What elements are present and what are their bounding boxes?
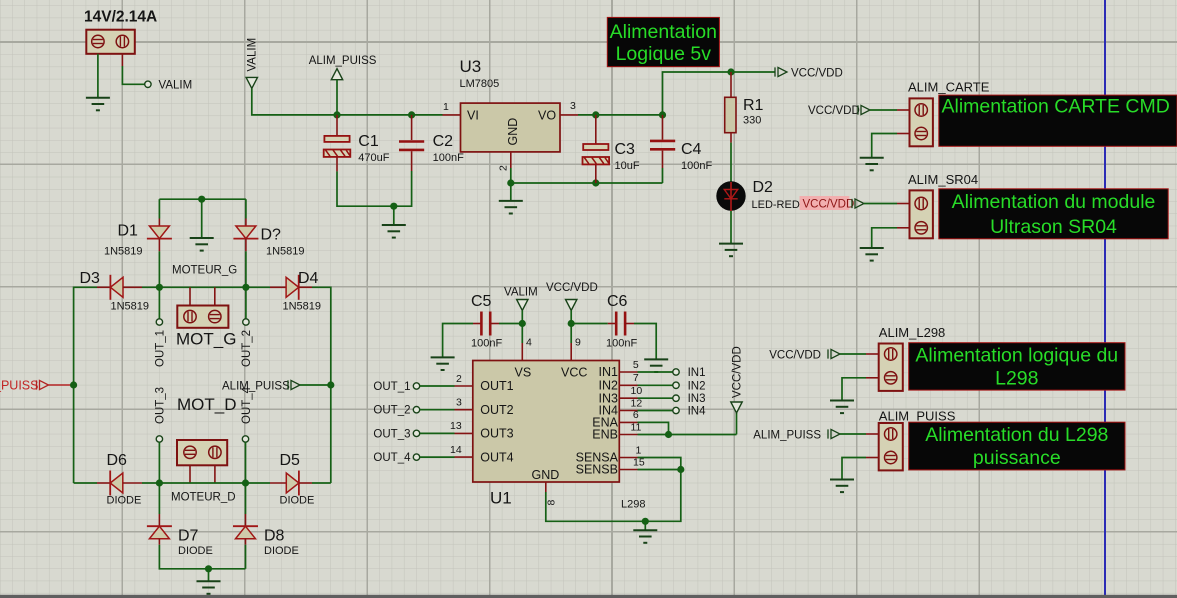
svg-text:11: 11 xyxy=(631,421,642,433)
power arrow VALIM (rotated, top middle) xyxy=(246,38,259,89)
port arrow PUISS (left edge) xyxy=(0,379,49,393)
black info box Alimentation Logique 5v xyxy=(607,17,719,66)
svg-text:DIODE: DIODE xyxy=(280,495,315,507)
svg-text:IN1: IN1 xyxy=(599,365,619,379)
junction C3 top xyxy=(592,111,599,118)
wire VALIM arrow down to input rail xyxy=(252,88,443,115)
svg-text:VS: VS xyxy=(515,366,532,380)
junction C4 top xyxy=(659,111,666,118)
node OUT_4 circle at U1 xyxy=(413,454,419,460)
capacitor C6 100nF xyxy=(606,293,637,350)
wire pin13 OUT3 xyxy=(420,432,473,434)
wire VCC/VDD arrow to ALIM_CARTE pin1 xyxy=(870,109,910,111)
wire PUISS arrow to left rail xyxy=(49,384,74,386)
capacitor C3 10uF xyxy=(583,115,640,183)
svg-text:1N5819: 1N5819 xyxy=(111,301,150,313)
node OUT_1 circle at U1 xyxy=(413,383,419,389)
pin 4 stub xyxy=(521,343,523,361)
svg-text:330: 330 xyxy=(743,115,761,127)
wire VALIM arrow to junction xyxy=(521,311,523,324)
wire bridge1 top rail xyxy=(159,198,246,200)
capacitor C5 100nF xyxy=(471,293,502,350)
junction bottom rail / ground xyxy=(390,203,397,210)
wire D7 bottom to ground rail xyxy=(159,545,245,569)
svg-text:10: 10 xyxy=(631,385,643,397)
svg-text:VCC/VDD: VCC/VDD xyxy=(546,282,598,294)
net label VCC/VDD (highlighted) xyxy=(800,196,865,210)
wire ALIM_L298 pin2 to ground xyxy=(842,378,879,401)
svg-text:OUT_1: OUT_1 xyxy=(155,330,167,367)
wire 14V pin2 to VALIM pin xyxy=(122,54,144,85)
ground bridge1 top xyxy=(190,238,214,251)
wire VO to C3/C4 top xyxy=(578,114,663,116)
node OUT_2 circle at U1 xyxy=(413,407,419,413)
svg-text:GND: GND xyxy=(506,118,520,146)
svg-text:D2: D2 xyxy=(753,179,774,196)
junction bottom rail ground xyxy=(642,518,649,525)
junction C1/rail xyxy=(333,111,340,118)
sheet border blue line xyxy=(1104,0,1106,596)
black info box Alimentation CARTE CMD xyxy=(939,95,1177,146)
svg-text:7: 7 xyxy=(633,372,639,384)
svg-text:OUT_2: OUT_2 xyxy=(241,330,253,367)
wire 5V rail up and right to VCC/VDD xyxy=(663,72,776,115)
svg-text:OUT2: OUT2 xyxy=(480,403,513,417)
svg-text:1: 1 xyxy=(443,101,449,113)
wire D8 top lead xyxy=(245,483,247,514)
junction pin2/ground xyxy=(507,179,514,186)
wire OUT_2 stub xyxy=(245,287,247,319)
wire 14V pin1 to ground xyxy=(97,54,99,98)
junction OUT_2 xyxy=(242,284,249,291)
capacitor C2 100nF xyxy=(399,115,464,171)
connector ALIM_CARTE xyxy=(910,98,933,146)
svg-text:VCC/VDD: VCC/VDD xyxy=(791,68,843,80)
wire D5 right lead to rail xyxy=(312,482,331,484)
capacitor C4 100nF xyxy=(650,115,712,172)
wire bridge1 mid rail xyxy=(142,286,270,288)
black info box Alimentation logique du L298 xyxy=(909,343,1125,390)
wire pin7 IN2 xyxy=(619,384,673,386)
svg-text:ENB: ENB xyxy=(592,428,618,442)
svg-text:LM7805: LM7805 xyxy=(460,78,500,90)
svg-text:OUT_1: OUT_1 xyxy=(373,381,410,393)
wire junction to pin 9 xyxy=(570,324,572,344)
wire ALIM_CARTE pin2 to ground xyxy=(872,134,910,158)
svg-text:D7: D7 xyxy=(178,528,199,545)
wire pin15 SENSB xyxy=(619,469,681,471)
node IN1 circle xyxy=(673,369,679,375)
svg-text:2: 2 xyxy=(498,165,510,171)
svg-text:D?: D? xyxy=(261,227,282,244)
svg-text:MOT_D: MOT_D xyxy=(177,395,237,414)
wire pin2 OUT1 xyxy=(420,385,473,387)
svg-text:100nF: 100nF xyxy=(471,338,502,350)
svg-text:15: 15 xyxy=(633,456,645,468)
pin 2 stub xyxy=(510,152,512,168)
wire bridge2 mid rail xyxy=(142,482,270,484)
junction D7 column xyxy=(156,479,163,486)
svg-text:OUT_3: OUT_3 xyxy=(155,387,167,424)
svg-text:GND: GND xyxy=(532,468,560,482)
svg-text:VCC/VDD: VCC/VDD xyxy=(808,105,860,117)
connector MOT_G xyxy=(176,287,236,348)
junction OUT_1 xyxy=(156,284,163,291)
node VALIM pin circle xyxy=(145,81,151,87)
wire D1 top lead xyxy=(158,199,160,218)
node IN3 circle xyxy=(673,395,679,401)
wire C5 right to VALIM node xyxy=(499,323,522,325)
svg-text:MOT_G: MOT_G xyxy=(176,330,236,349)
wire SENS to bottom rail and pin8 xyxy=(546,470,681,522)
svg-text:ALIM_PUISS: ALIM_PUISS xyxy=(879,409,956,424)
svg-text:D3: D3 xyxy=(80,270,101,287)
svg-text:L298: L298 xyxy=(995,368,1038,390)
ground under U3 xyxy=(499,201,523,214)
pin 1 stub xyxy=(443,114,461,116)
svg-text:Ultrason SR04: Ultrason SR04 xyxy=(990,216,1117,238)
wire ALIM_SR04 pin2 to ground xyxy=(872,228,910,248)
svg-text:ALIM_PUISS: ALIM_PUISS xyxy=(309,55,377,67)
svg-text:IN2: IN2 xyxy=(688,380,706,392)
svg-text:VI: VI xyxy=(467,108,479,122)
svg-text:D1: D1 xyxy=(118,223,139,240)
wire D8 bottom to ground rail xyxy=(245,545,247,569)
svg-text:IN1: IN1 xyxy=(688,367,706,379)
svg-text:OUT_4: OUT_4 xyxy=(373,452,411,464)
svg-text:ALIM_PUISS: ALIM_PUISS xyxy=(222,381,290,393)
svg-text:OUT_2: OUT_2 xyxy=(373,405,410,417)
svg-text:C4: C4 xyxy=(681,141,702,158)
node OUT_1 pin circle xyxy=(156,319,162,325)
node OUT_3 circle at U1 xyxy=(413,430,419,436)
svg-text:C3: C3 xyxy=(615,141,636,158)
svg-text:1N5819: 1N5819 xyxy=(283,301,322,313)
svg-text:VALIM: VALIM xyxy=(247,38,259,72)
svg-text:Logique 5v: Logique 5v xyxy=(616,43,712,65)
power arrow VCC/VDD to ALIM_L298 xyxy=(769,349,840,361)
diode D5 DIODE xyxy=(270,452,314,507)
wire junction to pin 4 xyxy=(521,324,523,344)
pin 8 stub xyxy=(545,482,547,492)
svg-text:10uF: 10uF xyxy=(615,160,640,172)
power arrow VCC/VDD to ALIM_CARTE xyxy=(808,105,870,117)
ground under 14V connector xyxy=(86,98,110,111)
svg-text:13: 13 xyxy=(450,420,462,432)
junction ENA/ENB xyxy=(665,431,672,438)
wire D7 top lead xyxy=(158,483,160,514)
svg-text:OUT4: OUT4 xyxy=(480,450,513,464)
junction ALIM_PUISS xyxy=(327,381,334,388)
svg-text:3: 3 xyxy=(570,100,576,112)
connector ALIM_PUISS xyxy=(879,423,903,470)
node OUT_3 pin circle xyxy=(156,436,162,442)
svg-text:DIODE: DIODE xyxy=(178,545,213,557)
svg-text:U3: U3 xyxy=(460,57,482,76)
svg-text:MOTEUR_G: MOTEUR_G xyxy=(172,265,237,277)
wire ALIM_PUISS connector pin2 to ground xyxy=(842,458,879,480)
svg-text:4: 4 xyxy=(526,337,532,349)
node IN4 circle xyxy=(673,407,679,413)
svg-text:D5: D5 xyxy=(280,452,301,469)
svg-text:9: 9 xyxy=(575,337,581,349)
wire rail to ground xyxy=(201,199,203,238)
wire pin3 OUT2 xyxy=(420,409,473,411)
pin 9 stub xyxy=(570,343,572,361)
wire C1 bottom rail to C2 bottom xyxy=(337,171,412,206)
wire pin1 SENSA xyxy=(619,458,681,470)
black info box Alimentation du module Ultrason SR04 xyxy=(939,189,1168,239)
svg-text:100nF: 100nF xyxy=(433,152,464,164)
svg-text:14V/2.14A: 14V/2.14A xyxy=(84,9,157,26)
svg-text:C5: C5 xyxy=(471,293,492,310)
wire OUT_4 stub xyxy=(245,442,247,483)
connector J 14V/2.14A xyxy=(84,9,157,54)
node OUT_4 pin circle xyxy=(242,436,248,442)
svg-text:3: 3 xyxy=(456,397,462,409)
svg-text:MOTEUR_D: MOTEUR_D xyxy=(171,492,236,504)
power arrow VCC/VDD (5V rail) xyxy=(775,67,843,79)
junction bridge2 ground xyxy=(205,565,212,572)
ground C6 xyxy=(644,359,668,372)
wire VCC/VDD arrow to ALIM_L298 pin1 xyxy=(840,353,879,355)
svg-text:2: 2 xyxy=(456,373,462,385)
svg-text:VALIM: VALIM xyxy=(159,80,193,92)
svg-text:U1: U1 xyxy=(490,489,512,508)
svg-text:IN2: IN2 xyxy=(599,379,619,393)
junction D8 column xyxy=(242,479,249,486)
port arrow ALIM_PUISS to connector xyxy=(753,429,840,441)
node OUT_2 pin circle xyxy=(243,319,249,325)
ground ALIM_CARTE xyxy=(860,158,884,171)
svg-text:OUT3: OUT3 xyxy=(480,427,513,441)
svg-text:IN3: IN3 xyxy=(688,393,706,405)
svg-text:OUT_4: OUT_4 xyxy=(241,386,253,424)
bottom window edge xyxy=(0,595,1177,598)
wire junction to ground symbol xyxy=(510,183,512,201)
ground ALIM_SR04 xyxy=(860,248,884,261)
ground U1 xyxy=(633,530,657,543)
svg-text:D6: D6 xyxy=(107,452,128,469)
svg-text:ALIM_L298: ALIM_L298 xyxy=(879,325,946,340)
ground bridge2 xyxy=(197,581,221,594)
junction VCC / pin9 xyxy=(568,320,575,327)
junction R1 top xyxy=(727,68,734,75)
svg-text:LED-RED: LED-RED xyxy=(752,199,800,211)
junction SENSA/SENSB xyxy=(677,466,684,473)
svg-text:VCC/VDD: VCC/VDD xyxy=(803,198,855,210)
svg-text:VO: VO xyxy=(538,108,556,122)
svg-text:8: 8 xyxy=(546,500,558,506)
power arrow VCC/VDD (above U1) xyxy=(546,282,598,311)
ground under C1/C2 rail xyxy=(382,225,406,238)
wire ALIM_PUISS arrow to right rail xyxy=(300,384,331,386)
wire ALIM_PUISS arrow to connector pin1 xyxy=(840,433,879,435)
junction VALIM / pin4 xyxy=(519,320,526,327)
wire pin10 IN3 xyxy=(619,397,673,399)
resistor R1 330 xyxy=(725,72,764,143)
svg-text:D4: D4 xyxy=(298,270,319,287)
wire D2 to ground xyxy=(730,211,732,244)
wire OUT_1 stub xyxy=(158,287,160,319)
svg-text:C2: C2 xyxy=(433,133,454,150)
svg-text:Alimentation du module: Alimentation du module xyxy=(952,191,1156,213)
wire D6 left lead to rail xyxy=(74,482,97,484)
svg-text:DIODE: DIODE xyxy=(264,545,299,557)
IC U1 L298 xyxy=(473,337,646,511)
svg-text:_PUISS: _PUISS xyxy=(0,379,38,393)
wire D1 bottom to rail xyxy=(158,251,160,287)
svg-text:C1: C1 xyxy=(358,133,379,150)
wire pin11 ENB xyxy=(619,434,736,436)
svg-text:VALIM: VALIM xyxy=(504,287,538,299)
connector MOTEUR_D xyxy=(171,440,236,504)
svg-text:DIODE: DIODE xyxy=(107,495,142,507)
wire junction to ground xyxy=(208,569,210,581)
svg-text:R1: R1 xyxy=(743,97,764,114)
node IN2 circle xyxy=(673,382,679,388)
diode D4 1N5819 xyxy=(270,270,321,313)
diode D? 1N5819 xyxy=(233,219,304,258)
diode D6 DIODE xyxy=(97,452,142,507)
wire D? top lead xyxy=(245,199,247,218)
svg-text:Alimentation CARTE CMD: Alimentation CARTE CMD xyxy=(942,96,1170,118)
LED D2 LED-RED xyxy=(716,179,800,211)
svg-text:470uF: 470uF xyxy=(358,152,389,164)
wire C6 right to ground xyxy=(634,324,656,360)
ground ALIM_L298 xyxy=(830,401,854,414)
svg-text:ALIM_PUISS: ALIM_PUISS xyxy=(753,430,821,442)
svg-text:1N5819: 1N5819 xyxy=(266,246,305,258)
wire bridge1 right rail xyxy=(312,287,331,483)
power arrow VCC/VDD (rotated, at ENB) xyxy=(731,346,744,413)
wire junction to ground xyxy=(644,521,646,530)
connector ALIM_L298 xyxy=(879,344,903,391)
wire ENB to VCC/VDD arrow xyxy=(736,413,738,435)
black info box Alimentation du L298 puissance xyxy=(909,422,1125,470)
svg-text:C6: C6 xyxy=(607,293,628,310)
junction C3 bottom xyxy=(592,179,599,186)
svg-text:OUT_3: OUT_3 xyxy=(373,428,410,440)
svg-text:IN4: IN4 xyxy=(688,406,707,418)
power arrow VALIM (above U1) xyxy=(504,287,538,311)
junction top rail ground xyxy=(198,196,205,203)
regulator U3 LM7805 xyxy=(443,57,579,171)
wire junction to ground xyxy=(393,206,395,225)
port arrow ALIM_PUISS (mid) xyxy=(222,380,300,392)
wire pin5 IN1 xyxy=(619,371,673,373)
wire U3 pin2 to ground rail xyxy=(511,168,663,183)
wire bridge1 left rail xyxy=(74,287,97,483)
junction PUISS xyxy=(70,381,77,388)
wire D? bottom to rail xyxy=(245,251,247,287)
diode D1 1N5819 xyxy=(104,219,172,258)
ground C5 xyxy=(431,357,455,370)
svg-text:VCC/VDD: VCC/VDD xyxy=(769,350,821,362)
svg-text:100nF: 100nF xyxy=(681,160,712,172)
svg-text:1: 1 xyxy=(636,444,642,456)
wire VCC/VDD arrow to ALIM_SR04 pin1 xyxy=(864,203,910,205)
wire OUT_3 stub xyxy=(158,442,160,483)
ground ALIM_PUISS connector xyxy=(830,480,854,493)
svg-text:D8: D8 xyxy=(264,528,285,545)
wire ALIM_PUISS arrow to rail xyxy=(336,80,338,115)
svg-text:ALIM_CARTE: ALIM_CARTE xyxy=(908,80,990,95)
svg-text:puissance: puissance xyxy=(973,447,1061,469)
svg-text:5: 5 xyxy=(633,359,639,371)
svg-text:12: 12 xyxy=(631,397,643,409)
diode D8 DIODE xyxy=(233,514,299,557)
svg-text:VCC/VDD: VCC/VDD xyxy=(732,346,744,398)
pin 3 stub xyxy=(560,114,578,116)
svg-text:ALIM_SR04: ALIM_SR04 xyxy=(908,172,978,187)
wire VCC junction to C6 xyxy=(571,323,608,325)
svg-text:Alimentation du L298: Alimentation du L298 xyxy=(925,424,1108,446)
svg-text:1N5819: 1N5819 xyxy=(104,246,143,258)
junction C2/rail xyxy=(408,111,415,118)
connector ALIM_SR04 xyxy=(910,190,933,238)
svg-text:100nF: 100nF xyxy=(606,338,637,350)
capacitor C1 470uF xyxy=(324,115,390,171)
svg-text:OUT1: OUT1 xyxy=(480,379,513,393)
wire VCC/VDD arrow to junction xyxy=(570,311,572,324)
svg-text:Alimentation: Alimentation xyxy=(610,21,717,43)
wire R1 to D2 xyxy=(730,143,732,182)
wire pin14 OUT4 xyxy=(420,456,473,458)
svg-text:VCC: VCC xyxy=(561,366,587,380)
wire pin6 ENA xyxy=(619,422,668,434)
wire C5 left to ground xyxy=(443,324,473,358)
svg-text:6: 6 xyxy=(633,409,639,421)
svg-text:L298: L298 xyxy=(621,499,645,511)
svg-text:SENSB: SENSB xyxy=(576,463,618,477)
svg-text:14: 14 xyxy=(450,444,462,456)
power arrow ALIM_PUISS (top) xyxy=(309,55,377,80)
ground under D2 xyxy=(719,244,743,257)
wire pin12 IN4 xyxy=(619,410,673,412)
diode D3 1N5819 xyxy=(80,270,150,313)
svg-text:Alimentation logique du: Alimentation logique du xyxy=(915,345,1118,367)
diode D7 DIODE xyxy=(147,514,213,557)
